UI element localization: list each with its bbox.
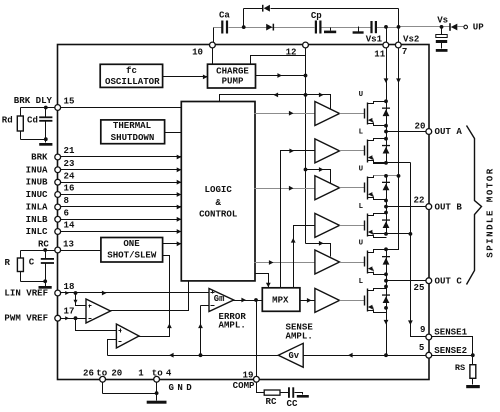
svg-text:CHARGE: CHARGE	[216, 65, 249, 76]
svg-text:INUB: INUB	[26, 177, 48, 188]
svg-text:MPX: MPX	[272, 294, 289, 305]
svg-text:R: R	[4, 257, 10, 268]
svg-text:AMPL.: AMPL.	[286, 331, 313, 342]
svg-text:25: 25	[414, 282, 425, 293]
svg-text:20: 20	[415, 121, 426, 132]
svg-text:23: 23	[64, 158, 75, 169]
svg-text:BRK DLY: BRK DLY	[14, 95, 53, 106]
svg-text:RS: RS	[455, 363, 465, 373]
svg-text:RC: RC	[266, 396, 277, 407]
svg-text:OUT A: OUT A	[435, 126, 463, 137]
svg-text:L: L	[359, 278, 364, 286]
svg-text:SENSE1: SENSE1	[434, 327, 467, 338]
svg-text:Gm: Gm	[214, 294, 225, 304]
svg-text:L: L	[359, 203, 364, 211]
svg-text:UP: UP	[473, 22, 484, 33]
svg-text:fc: fc	[126, 65, 137, 76]
svg-text:CONTROL: CONTROL	[199, 208, 237, 219]
svg-text:22: 22	[414, 195, 425, 206]
svg-text:4: 4	[166, 367, 172, 378]
svg-text:15: 15	[64, 96, 75, 107]
svg-text:RC: RC	[38, 239, 49, 250]
svg-text:SENSE2: SENSE2	[434, 345, 467, 356]
svg-text:6: 6	[64, 207, 69, 218]
svg-text:LOGIC: LOGIC	[205, 184, 233, 195]
svg-text:12: 12	[286, 47, 297, 58]
svg-text:PWM VREF: PWM VREF	[4, 313, 48, 324]
svg-text:Vs1: Vs1	[366, 33, 383, 44]
svg-text:Vs2: Vs2	[403, 34, 419, 45]
svg-text:7: 7	[402, 46, 407, 57]
svg-text:21: 21	[64, 145, 75, 156]
svg-text:14: 14	[64, 220, 75, 231]
svg-text:GND: GND	[169, 382, 196, 393]
svg-text:CC: CC	[287, 398, 298, 409]
svg-text:9: 9	[420, 324, 425, 335]
svg-text:1: 1	[138, 367, 144, 378]
svg-text:ONE: ONE	[123, 238, 140, 249]
svg-text:BRK: BRK	[31, 152, 48, 163]
svg-text:OSCILLATOR: OSCILLATOR	[105, 76, 160, 87]
svg-text:Ca: Ca	[219, 10, 230, 21]
svg-text:C: C	[29, 256, 35, 267]
svg-text:OUT C: OUT C	[435, 276, 463, 287]
svg-text:11: 11	[374, 48, 385, 59]
svg-text:13: 13	[63, 239, 74, 250]
svg-text:8: 8	[64, 195, 69, 206]
svg-text:Vs: Vs	[437, 15, 448, 26]
svg-text:INLB: INLB	[26, 214, 48, 225]
svg-text:L: L	[359, 129, 364, 137]
svg-text:PUMP: PUMP	[222, 76, 244, 87]
svg-text:AMPL.: AMPL.	[219, 319, 246, 330]
svg-text:17: 17	[64, 306, 75, 317]
svg-text:19: 19	[243, 370, 254, 381]
svg-text:U: U	[359, 165, 363, 173]
svg-text:INUA: INUA	[26, 164, 48, 175]
svg-text:26: 26	[83, 367, 94, 378]
svg-text:18: 18	[64, 281, 75, 292]
svg-text:16: 16	[64, 183, 75, 194]
svg-text:THERMAL: THERMAL	[113, 120, 151, 131]
svg-text:10: 10	[192, 47, 203, 58]
svg-text:COMP: COMP	[233, 380, 255, 391]
svg-text:20: 20	[111, 367, 122, 378]
svg-text:SPINDLE MOTOR: SPINDLE MOTOR	[485, 167, 496, 257]
svg-text:INLA: INLA	[26, 202, 48, 213]
svg-text:INLC: INLC	[26, 226, 48, 237]
svg-text:&: &	[215, 197, 221, 208]
svg-text:5: 5	[419, 342, 424, 353]
svg-text:Cd: Cd	[27, 115, 38, 126]
svg-text:OUT B: OUT B	[435, 202, 463, 213]
svg-text:SHOT/SLEW: SHOT/SLEW	[107, 250, 157, 261]
svg-text:Rd: Rd	[2, 115, 13, 126]
svg-text:Cp: Cp	[311, 10, 322, 21]
svg-text:24: 24	[64, 170, 75, 181]
svg-text:SHUTDOWN: SHUTDOWN	[111, 132, 155, 143]
svg-text:Gv: Gv	[289, 351, 300, 361]
svg-text:U: U	[359, 91, 363, 99]
svg-text:LIN VREF: LIN VREF	[4, 288, 48, 299]
svg-text:INUC: INUC	[26, 189, 48, 200]
svg-text:U: U	[359, 240, 363, 248]
